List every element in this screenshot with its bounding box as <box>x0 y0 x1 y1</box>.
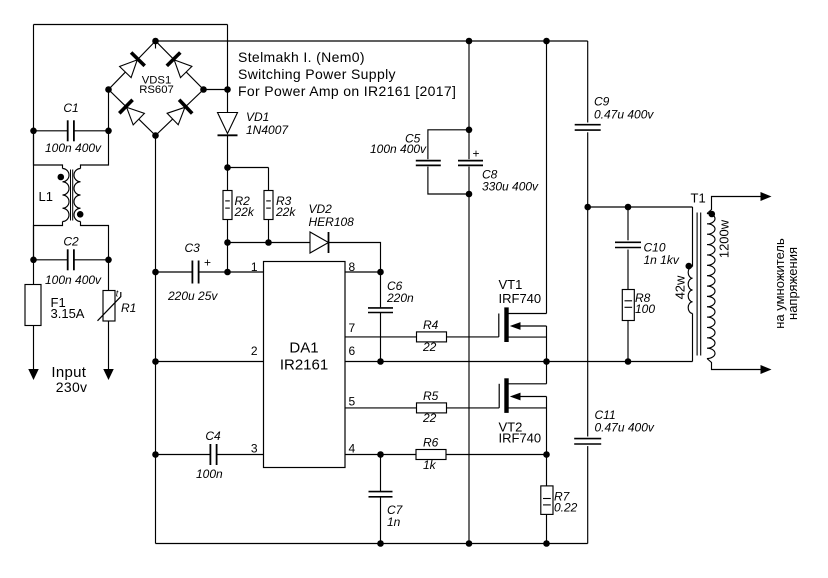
T1 secondary phase dot <box>709 211 716 218</box>
svg-text:6: 6 <box>349 344 356 358</box>
node pin6 / C6 bottom <box>377 358 384 365</box>
wire C1 row <box>34 130 109 132</box>
op-amp/driver IC DA1 IR2161 body <box>264 262 346 468</box>
node half-bridge midpoint <box>543 358 550 365</box>
wire left edge vertical (mains line A) <box>33 25 35 260</box>
svg-text:IR2161: IR2161 <box>280 357 328 374</box>
svg-text:100n 400v: 100n 400v <box>45 141 102 155</box>
wire C2-left to fuse F1 <box>33 260 35 285</box>
wire bottom ground bus <box>156 543 588 545</box>
svg-text:22k: 22k <box>275 205 296 219</box>
wire R8 to net-B <box>627 321 629 362</box>
svg-text:C2: C2 <box>63 235 79 249</box>
wire C11 to ground bus <box>587 446 589 543</box>
resistor R3 <box>264 191 273 220</box>
svg-text:22: 22 <box>422 411 437 425</box>
wire R2/R3 bottom to VD2 anode <box>228 242 311 244</box>
svg-text:Switching Power Supply: Switching Power Supply <box>238 66 396 82</box>
wire L1 left winding bottom to C2-left <box>34 222 63 260</box>
wire bridge left node down to C1 right <box>108 90 110 131</box>
node C2 left <box>30 257 37 264</box>
svg-text:100n 400v: 100n 400v <box>45 273 102 287</box>
svg-text:3: 3 <box>251 441 258 455</box>
wire R1 to input arrow <box>108 321 110 370</box>
wire C1-right down to L1 right winding <box>81 131 109 169</box>
bridge rectifier VDS1 diamond outline <box>109 41 204 136</box>
L1 phase dot left <box>58 174 65 181</box>
svg-text:Stelmakh I. (Nem0): Stelmakh I. (Nem0) <box>238 49 365 65</box>
capacitor C3 <box>192 261 198 284</box>
node ground bus / C7 <box>377 540 384 547</box>
diode VD2 HER108 <box>310 232 329 253</box>
transformer T1 primary winding <box>688 267 692 314</box>
svg-text:IRF740: IRF740 <box>499 431 542 446</box>
T1 primary phase dot <box>686 263 693 270</box>
transformer T1 secondary winding <box>707 214 715 359</box>
node minus bus / pin2 <box>152 358 159 365</box>
svg-text:DA1: DA1 <box>289 340 318 357</box>
capacitor C6 <box>368 308 393 313</box>
wire C8 bottom lead <box>468 167 470 194</box>
bridge diode top-right (VDS1) <box>167 53 192 78</box>
svg-text:For Power Amp on IR2161 [2017]: For Power Amp on IR2161 [2017] <box>238 83 456 99</box>
L1 core line left <box>70 170 72 221</box>
wire VT2 drain to mid node <box>546 362 548 384</box>
wire C7 column lower <box>380 497 382 544</box>
svg-text:1n: 1n <box>387 515 401 529</box>
svg-text:IRF740: IRF740 <box>499 291 542 306</box>
wire L1 right winding bottom to C2-right <box>81 222 109 260</box>
node C2 right <box>105 257 112 264</box>
bridge diode bottom-left (VDS1) <box>119 100 144 125</box>
wire F1 to input arrow <box>33 326 35 371</box>
wire C6 column lower <box>380 313 382 362</box>
svg-text:100: 100 <box>635 302 655 316</box>
wire main + rail y=40 <box>156 40 588 42</box>
svg-text:C4: C4 <box>205 429 221 443</box>
capacitor C2 <box>68 249 74 270</box>
node net-B / R8 <box>625 358 632 365</box>
wire bridge bottom node to minus bus <box>155 136 157 544</box>
node minus bus / pin3 <box>152 451 159 458</box>
wire C2 row <box>34 259 109 261</box>
input arrow left <box>28 369 39 380</box>
resistor R2 <box>223 191 232 220</box>
svg-text:HER108: HER108 <box>309 215 355 229</box>
thermistor R1 <box>103 291 115 322</box>
wire C2-right to thermistor R1 <box>108 260 110 291</box>
wire pin7 to R4 <box>345 336 417 338</box>
wire C5 top branch <box>428 130 469 159</box>
svg-text:7: 7 <box>349 321 356 335</box>
node pin4 / C7 <box>377 451 384 458</box>
svg-text:1: 1 <box>251 260 258 274</box>
capacitor C5 plates <box>416 161 441 166</box>
capacitor C8 plates <box>458 161 483 166</box>
svg-text:0.47u 400v: 0.47u 400v <box>594 107 654 121</box>
capacitor C11 <box>574 439 601 444</box>
wire C10 to R8 <box>627 250 629 290</box>
svg-text:VD1: VD1 <box>246 110 269 124</box>
svg-text:напряжения: напряжения <box>785 247 800 320</box>
transistor VT2 IRF740 <box>499 378 546 413</box>
wire R3 bottom lead <box>268 220 270 243</box>
wire pin3 row left of C4 <box>156 454 264 456</box>
svg-text:4: 4 <box>349 441 356 455</box>
node VD1 cathode / R2R3 top <box>224 164 231 171</box>
wire R2 bottom to junction <box>227 220 229 273</box>
wire VT1 source to mid node <box>546 326 548 362</box>
svg-text:1k: 1k <box>423 458 437 472</box>
capacitor C1 <box>68 120 74 141</box>
wire pin1 row left of C3 <box>156 271 193 273</box>
wire C9 column from + rail <box>587 41 589 123</box>
wire bridge top node up-link <box>155 41 157 49</box>
svg-text:220u 25v: 220u 25v <box>167 289 218 303</box>
wire R4 to VT1 gate <box>447 336 499 338</box>
resistor R6 <box>416 450 446 460</box>
wire x470 column to ground bus <box>468 194 470 544</box>
wire T1 primary top lead <box>692 207 694 267</box>
wire half-bridge mid to primary bottom <box>547 361 693 363</box>
svg-text:R6: R6 <box>423 436 439 450</box>
node ground bus / R7 <box>543 540 550 547</box>
wire VT2 source node to R7 <box>546 455 548 486</box>
wire R6 to VT2 source node <box>446 454 547 456</box>
wire T1 secondary top lead <box>707 197 762 214</box>
svg-text:100n 400v: 100n 400v <box>370 142 427 156</box>
wire netA column down to C11 <box>587 207 589 437</box>
node pin8 / C6 / VD2 <box>377 269 384 276</box>
svg-text:RS607: RS607 <box>139 84 174 96</box>
svg-text:1n 1kv: 1n 1kv <box>644 253 680 267</box>
node C5C8 top <box>466 127 473 134</box>
fuse F1 <box>25 285 41 326</box>
L1 core line right <box>72 170 74 221</box>
svg-text:220n: 220n <box>386 291 414 305</box>
node net-A / C9C11 column <box>584 204 591 211</box>
svg-text:T1: T1 <box>691 191 706 206</box>
R1 diagonal stroke <box>98 292 121 321</box>
node + rail / C5C8 column <box>466 38 473 45</box>
wire C5 bottom branch <box>428 167 469 194</box>
wire net-A to transformer primary top <box>588 206 693 208</box>
wire C8 top lead <box>468 130 470 159</box>
node bridge left AC <box>105 86 112 93</box>
capacitor C10 <box>615 242 641 247</box>
wire VD2 cathode to C6 column corner <box>329 243 381 273</box>
wire T1 primary bottom lead <box>692 314 694 362</box>
inductor L1 right winding <box>74 169 81 222</box>
node bridge top (+ rail) <box>152 38 159 45</box>
capacitor C9 <box>575 125 601 130</box>
wire VT2 source down to R7 node <box>546 397 548 455</box>
node + rail / VT1 drain <box>543 38 550 45</box>
output arrow top <box>761 192 772 201</box>
svg-text:+: + <box>473 147 480 161</box>
svg-text:R5: R5 <box>423 389 439 403</box>
svg-text:1200w: 1200w <box>717 219 732 258</box>
wire C1-left down to L1 left winding <box>34 131 63 169</box>
node ground bus / C5C8 column <box>466 540 473 547</box>
wire pin8 row <box>345 271 381 273</box>
resistor R5 <box>417 403 447 413</box>
node C3 plus / pin1 <box>224 269 231 276</box>
wire top-left horizontal bus <box>34 24 228 26</box>
output arrow bottom <box>761 365 772 374</box>
svg-text:22k: 22k <box>234 205 255 219</box>
resistor R7 <box>541 486 553 515</box>
diode VD1 1N4007 <box>218 113 238 136</box>
svg-text:+: + <box>204 256 211 270</box>
wire C10 top lead <box>627 207 629 240</box>
node R2 bottom <box>224 239 231 246</box>
node minus bus / C3 <box>152 269 159 276</box>
svg-text:100n: 100n <box>196 467 223 481</box>
svg-text:3.15A: 3.15A <box>51 306 85 321</box>
wire T1 secondary bottom lead <box>707 359 762 370</box>
transistor VT1 IRF740 <box>499 307 547 342</box>
svg-text:C3: C3 <box>185 241 201 255</box>
svg-text:R4: R4 <box>423 318 439 332</box>
wire VD1 column from top bus down to pin1 node <box>227 25 229 113</box>
svg-text:42w: 42w <box>672 275 687 299</box>
node AC / VD1 column <box>224 86 231 93</box>
wire R2/R3 top link <box>228 167 269 169</box>
svg-text:230v: 230v <box>56 379 88 395</box>
wire C7 column upper <box>380 455 382 492</box>
wire pin4 to R6 <box>345 454 416 456</box>
svg-text:0.47u 400v: 0.47u 400v <box>595 421 655 435</box>
wire pin5 to R5 <box>345 407 417 409</box>
node C1 right <box>105 128 112 135</box>
node VT2 source / R6 / R7 <box>543 451 550 458</box>
svg-text:R1: R1 <box>121 301 136 315</box>
svg-text:5: 5 <box>349 395 356 409</box>
label output to voltage multiplier (rotated) <box>772 238 800 329</box>
svg-text:2: 2 <box>251 344 258 358</box>
node net-A / C10 <box>625 204 632 211</box>
wire bridge AC right node to VD1 column <box>204 89 228 91</box>
svg-text:330u 400v: 330u 400v <box>482 180 539 194</box>
wire VD1 cathode to R2 top node <box>227 136 229 191</box>
wire C9 to net-A node <box>587 132 589 207</box>
node bridge right AC <box>200 86 207 93</box>
wire C6 column upper <box>380 272 382 308</box>
svg-text:0.22: 0.22 <box>554 501 578 515</box>
svg-text:C1: C1 <box>63 101 78 115</box>
wire R3 top lead <box>268 168 270 191</box>
node C5C8 bottom <box>466 191 473 198</box>
wire R5 to VT2 gate <box>447 407 500 409</box>
node bridge bottom (minus) <box>152 132 159 139</box>
wire x470 column top <box>468 41 470 130</box>
inductor L1 left winding <box>63 169 70 222</box>
bridge diode bottom-right (VDSl) <box>167 100 192 125</box>
wire pin1 row right of C3 <box>199 271 264 273</box>
T1 core line right <box>700 213 702 356</box>
L1 phase dot right <box>77 211 84 218</box>
wire R7 to ground bus <box>546 514 548 543</box>
svg-text:1N4007: 1N4007 <box>246 123 289 137</box>
svg-text:L1: L1 <box>39 189 53 204</box>
node R3 bottom <box>265 239 272 246</box>
wire pin6 row to half-bridge mid <box>345 361 547 363</box>
wire VT1 drain to + rail <box>546 41 548 314</box>
node C1 left <box>30 128 37 135</box>
svg-text:22: 22 <box>422 340 437 354</box>
capacitor C4 <box>210 444 216 465</box>
svg-text:VT1: VT1 <box>499 277 523 292</box>
bridge diode top-left (VDS1) <box>120 53 145 78</box>
resistor R4 <box>417 332 447 342</box>
capacitor C7 <box>369 492 393 497</box>
resistor R8 <box>622 290 634 321</box>
svg-text:C9: C9 <box>594 95 610 109</box>
wire pin2 row <box>156 361 264 363</box>
T1 core line left <box>696 213 698 356</box>
input arrow right <box>103 369 114 380</box>
